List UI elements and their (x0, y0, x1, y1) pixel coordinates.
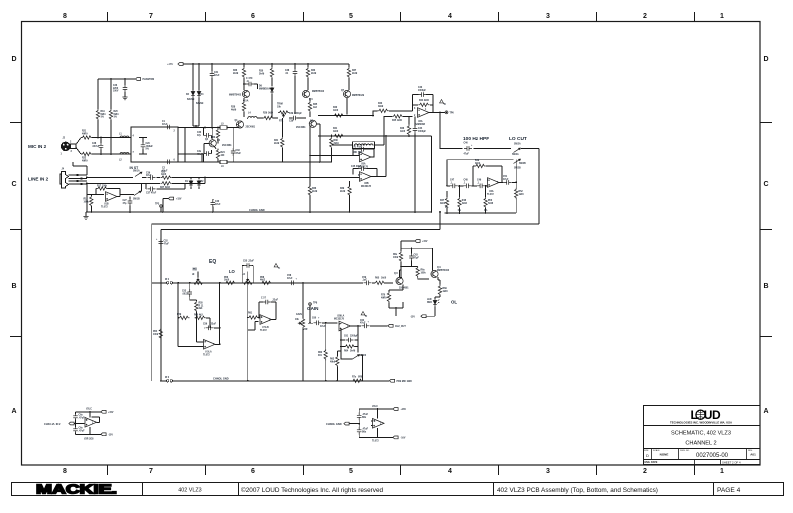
svg-text:+48V: +48V (167, 62, 173, 66)
resistor R30 (270, 67, 273, 78)
svg-text:R39: R39 (340, 188, 345, 190)
resistor R40 (333, 114, 344, 117)
svg-text:B6x: B6x (362, 417, 367, 419)
svg-text:V2LC: V2LC (86, 409, 92, 411)
svg-text:MMBT5403: MMBT5403 (229, 94, 242, 97)
wire phantom top (98, 78, 135, 80)
svg-text:C58: C58 (287, 275, 292, 277)
wire +48V rail (183, 63, 349, 65)
wire HI branch right (219, 283, 221, 345)
top zone ticks (108, 12, 695, 21)
net flag delta EQ (274, 264, 279, 269)
wire diode drop 2 (193, 64, 199, 128)
neg supply flag ol (421, 315, 426, 318)
svg-text:1k00: 1k00 (224, 280, 230, 282)
svg-text:R22: R22 (82, 158, 87, 160)
svg-text:C6x: C6x (79, 415, 84, 417)
wire shunt verticals to gnd bus (415, 136, 431, 212)
svg-text:2: 2 (643, 13, 647, 20)
svg-text:6k81: 6k81 (114, 114, 120, 116)
node gnd bus junctions (90, 211, 350, 213)
LED arrows (438, 300, 440, 304)
svg-text:V2R: V2R (303, 329, 308, 331)
svg-text:W 2: W 2 (165, 279, 170, 281)
svg-text:47uF: 47uF (320, 325, 326, 328)
svg-text:R20: R20 (114, 111, 119, 113)
svg-text:47uF: 47uF (162, 123, 168, 126)
capacitor C66 top (357, 412, 362, 420)
svg-text:+15V: +15V (108, 412, 114, 414)
svg-text:©2007 LOUD Technologies Inc. A: ©2007 LOUD Technologies Inc. All rights … (241, 486, 384, 494)
resistor R65 ol (374, 281, 385, 284)
svg-text:R70: R70 (381, 295, 386, 297)
svg-text:4k02: 4k02 (260, 279, 266, 282)
resistor R69 emitter (438, 285, 441, 296)
svg-text:.47uF: .47uF (79, 416, 86, 419)
resistor R17 feedback (97, 187, 108, 190)
left zone letters (11, 56, 16, 415)
wire OL supply (401, 241, 433, 248)
op-amp U5B lo (260, 315, 272, 325)
svg-text:47uF: 47uF (360, 322, 366, 325)
wire secondary return (161, 230, 440, 235)
svg-text:SW2B: SW2B (514, 168, 521, 170)
svg-text:SIZE: SIZE (644, 450, 649, 452)
wire hi opamp (178, 318, 220, 347)
capacitor C29 inside box (139, 138, 147, 155)
wire long mid rail (177, 161, 332, 163)
wire hpf feedback (473, 166, 502, 186)
svg-text:TL072: TL072 (372, 441, 379, 443)
wire tail resistor left (281, 118, 283, 162)
resistor R54 bus (160, 322, 162, 345)
wire bias flag (163, 199, 169, 213)
resistor R21 (81, 136, 92, 139)
capacitor C57 lo feedback (263, 300, 271, 305)
capacitor C49 (477, 184, 485, 189)
resistor R36 (308, 185, 311, 196)
wire line amp input (87, 184, 104, 195)
svg-text:V2R 2G8: V2R 2G8 (84, 439, 94, 441)
svg-text:R55: R55 (199, 303, 204, 305)
svg-text:R6x: R6x (393, 254, 398, 256)
svg-text:R36: R36 (312, 188, 317, 190)
wire hpf output (499, 160, 516, 183)
svg-text:C28: C28 (92, 143, 97, 145)
svg-text:C39: C39 (289, 121, 294, 123)
capacitor C35 (246, 82, 254, 87)
svg-text:1k00: 1k00 (333, 110, 339, 112)
svg-text:C49: C49 (477, 179, 482, 182)
wire phantom right (110, 79, 112, 154)
wire servo1 feedback (353, 149, 374, 157)
svg-text:D: D (11, 56, 16, 63)
wire ref input (74, 423, 84, 425)
op-amp U5A hi (204, 340, 216, 350)
capacitor C67 bottom (357, 427, 362, 435)
transistor Q7 (343, 90, 350, 97)
op-amp U1A ref (85, 418, 97, 428)
svg-text:R40: R40 (333, 106, 338, 109)
capacitor C51 out (504, 180, 512, 185)
svg-text:R 11: R 11 (199, 305, 204, 307)
capacitor C27 (129, 197, 131, 213)
wire LO branch (247, 283, 249, 381)
svg-text:R50: R50 (488, 200, 493, 202)
svg-text:CH2_OUT: CH2_OUT (395, 326, 406, 328)
chnol gnd flag (344, 422, 349, 425)
svg-text:MMBT6429: MMBT6429 (352, 94, 365, 97)
svg-text:TRIM: TRIM (277, 104, 283, 106)
svg-text:HI: HI (193, 267, 197, 272)
wire left bus outer (151, 230, 153, 381)
svg-text:HI: HI (192, 274, 195, 276)
top zone numbers (63, 13, 724, 20)
svg-text:47uF: 47uF (215, 203, 221, 206)
LOUD logo (691, 408, 721, 422)
resistor R33 (306, 67, 309, 78)
wire line tip (69, 174, 87, 176)
svg-text:R31: R31 (274, 140, 279, 142)
svg-text:R47: R47 (440, 199, 445, 202)
capacitor C30 base (204, 128, 212, 139)
wire HI branch left (177, 283, 179, 347)
wire jog to summing amp (373, 111, 413, 116)
svg-text:R43: R43 (378, 102, 383, 105)
capacitor C64 ref top (73, 413, 78, 421)
svg-text:47p: 47p (123, 202, 128, 205)
svg-text:LED: LED (427, 299, 432, 301)
svg-text:R23: R23 (211, 137, 216, 139)
wire inst row 1 (142, 177, 205, 179)
svg-text:MMBD914: MMBD914 (259, 87, 271, 90)
resistor R20 phantom (109, 109, 112, 120)
resistor R39 servo (348, 185, 351, 196)
svg-text:2SC4081: 2SC4081 (246, 126, 256, 129)
GAIN pot wire (302, 283, 304, 381)
wire HPF input cap (474, 147, 512, 149)
capacitor C62 out (362, 324, 370, 329)
svg-text:SW1A: SW1A (133, 170, 140, 173)
resistor R22 (81, 152, 92, 155)
transistor Q9 ol (431, 270, 438, 277)
resistor R66 bottom (352, 379, 363, 382)
input flag chn lvl (69, 422, 74, 425)
capacitor C26 phantom (124, 79, 126, 97)
svg-text:5: 5 (349, 468, 353, 475)
svg-text:1%: 1% (101, 117, 104, 119)
svg-text:CHNOL GND: CHNOL GND (213, 377, 229, 381)
bias flag (168, 197, 173, 200)
transistor Q8 ol driver (396, 277, 403, 284)
svg-text:.47uF: .47uF (79, 429, 86, 432)
node splitter junctions (358, 408, 378, 438)
wire Q8 emitter (389, 285, 403, 309)
svg-text:47p: 47p (197, 134, 202, 137)
wire gain wiper (308, 322, 337, 324)
node phantom junctions (110, 78, 126, 80)
node ref junctions (89, 411, 91, 435)
svg-text:RT1: RT1 (279, 121, 284, 123)
svg-text:SW2A: SW2A (512, 153, 519, 156)
wire Q8 collector tie (400, 270, 402, 277)
node q8 junction (395, 307, 397, 309)
svg-text:C: C (763, 181, 768, 188)
wire Q4 collector (212, 128, 214, 140)
svg-text:+15V: +15V (422, 241, 428, 243)
svg-text:PAGE 4: PAGE 4 (717, 487, 741, 494)
wire Q2 base tie (316, 124, 319, 136)
resistor R48 shunt2 (459, 186, 461, 213)
svg-text:C38: C38 (285, 70, 290, 72)
svg-text:.1uF: .1uF (362, 280, 367, 282)
trimpot TRIM (278, 111, 289, 118)
svg-text:6k81: 6k81 (101, 114, 107, 116)
servo amp U3B (360, 172, 372, 182)
svg-text:IN ST: IN ST (130, 166, 140, 170)
node servo2 junction (385, 135, 387, 137)
svg-text:2SC4081: 2SC4081 (222, 144, 232, 147)
svg-text:C 57: C 57 (261, 298, 267, 300)
wire emitter row (247, 117, 306, 120)
capacitor C40 gnd (212, 199, 214, 212)
svg-text:D: D (763, 56, 768, 63)
svg-text:GAIN: GAIN (307, 306, 319, 311)
inductor L4 (248, 117, 257, 119)
svg-text:7: 7 (149, 468, 153, 475)
wire main to OL (298, 282, 393, 284)
svg-text:100k: 100k (84, 201, 90, 203)
svg-text:C44: C44 (418, 127, 423, 130)
wire hpf bottom (445, 212, 517, 214)
wire ref rails (76, 412, 102, 435)
SCHEMATIC-UPPER (44, 230, 457, 443)
svg-text:C53: C53 (182, 291, 187, 293)
wire feedback loop (413, 95, 434, 113)
node servo1 in (309, 155, 311, 157)
svg-text:C48: C48 (464, 179, 469, 182)
capacitor C53 hi (189, 283, 191, 300)
diode D1 clamp (190, 178, 192, 189)
phantom flag (135, 78, 140, 81)
diode D3 (191, 90, 195, 98)
svg-text:6: 6 (251, 13, 255, 20)
op-amp U7 splitter (373, 419, 385, 429)
svg-text:R45 1k00: R45 1k00 (392, 119, 403, 122)
wire servo2 input (205, 176, 360, 178)
svg-text:49R9: 49R9 (82, 159, 88, 162)
svg-text:A: A (763, 408, 768, 415)
wire corner feed (319, 136, 321, 162)
resistor R37 (347, 67, 350, 78)
svg-text:SW1B: SW1B (133, 199, 140, 201)
test point TP8 (309, 306, 311, 323)
svg-text:TP6: TP6 (450, 113, 455, 115)
svg-text:4k99: 4k99 (231, 108, 237, 111)
svg-text:C3x: C3x (197, 151, 202, 153)
svg-text:C47: C47 (450, 179, 455, 182)
svg-text:2k49: 2k49 (352, 72, 358, 75)
svg-text:4: 4 (448, 468, 452, 475)
net flag delta gain (361, 312, 366, 317)
svg-text:R41: R41 (333, 127, 338, 130)
resistor R23 (217, 128, 219, 144)
svg-text:C27: C27 (123, 200, 128, 202)
svg-text:402 VLZ3 PCB Assembly (Top, Bo: 402 VLZ3 PCB Assembly (Top, Bottom, and … (497, 487, 658, 494)
wire line to inst row (73, 162, 147, 183)
svg-text:2k49: 2k49 (340, 190, 346, 193)
wire line amp feedback (96, 189, 120, 197)
svg-text:2k49: 2k49 (350, 350, 356, 353)
resistor R55 hi (190, 300, 197, 318)
wire Q9 collector (432, 248, 434, 270)
svg-text:R21: R21 (82, 131, 87, 133)
resistor R45 (392, 115, 403, 118)
svg-text:0R0: 0R0 (358, 376, 363, 378)
svg-text:C52: C52 (164, 241, 169, 243)
svg-text:-15V: -15V (108, 435, 113, 437)
resistor R44 feedback (418, 103, 429, 106)
svg-text:47uF: 47uF (287, 277, 293, 280)
svg-text:SW2A: SW2A (514, 143, 521, 146)
svg-text:ENG. DATE: ENG. DATE (645, 461, 658, 464)
wire summing output (429, 111, 445, 113)
jumper pads main (166, 282, 168, 284)
left zone ticks (10, 123, 21, 337)
footer box (12, 483, 784, 496)
wire servo1 input (310, 154, 360, 156)
svg-text:BAV99: BAV99 (187, 98, 195, 101)
svg-text:U1B: U1B (104, 204, 109, 206)
svg-text:49k9: 49k9 (330, 360, 336, 363)
svg-text:C36: C36 (146, 172, 151, 174)
svg-text:4k02: 4k02 (440, 202, 446, 205)
svg-text:R49: R49 (475, 159, 480, 162)
resistor R67 collector load (400, 248, 402, 277)
resistor R24 (217, 149, 219, 162)
svg-text:TECHNOLOGIES INC. WOODINVILLE: TECHNOLOGIES INC. WOODINVILLE WA. USA (670, 421, 732, 425)
wire hi mid row (178, 318, 210, 328)
supply flag ref neg (101, 433, 106, 436)
svg-text:47uF: 47uF (214, 74, 220, 77)
capacitor C32 top edge (165, 125, 173, 130)
resistor R18 (90, 195, 92, 213)
svg-text:U26LA: U26LA (337, 315, 345, 318)
right zone ticks (760, 123, 772, 337)
pot GAIN (298, 317, 305, 328)
svg-text:C63: C63 (414, 255, 419, 257)
svg-text:R62: R62 (318, 352, 323, 354)
resistor R49 feedback (474, 164, 485, 167)
svg-text:49R9: 49R9 (381, 296, 387, 299)
wire third branch (347, 64, 349, 115)
svg-text:MACKIE.: MACKIE. (36, 482, 117, 496)
svg-text:.047uF: .047uF (92, 145, 100, 148)
ferrite bead L6 (220, 160, 227, 164)
capacitor C34 bottom edge (165, 160, 173, 165)
wire output down to HPF (440, 112, 463, 148)
svg-text:A: A (11, 408, 16, 415)
node fb junction (357, 325, 359, 327)
svg-text:C 47C: C 47C (246, 77, 253, 80)
svg-text:1: 1 (720, 468, 724, 475)
svg-text:100k: 100k (393, 257, 399, 259)
wire ref left rail (75, 412, 77, 435)
node line jack squares (77, 174, 83, 185)
svg-text:U 5LB: U 5LB (262, 327, 269, 329)
svg-text:MMBT5403: MMBT5403 (312, 90, 325, 93)
svg-text:100k: 100k (421, 272, 427, 274)
svg-text:B: B (11, 283, 16, 290)
svg-text:B6x: B6x (362, 431, 367, 433)
wire Q4 emitter (215, 147, 217, 150)
svg-text:1k00: 1k00 (161, 174, 167, 176)
+48V supply flag (178, 63, 183, 66)
wire q8 down (395, 308, 397, 316)
svg-text:C37 47uF: C37 47uF (146, 192, 157, 195)
net flag delta A (440, 100, 445, 105)
capacitor C39 (291, 116, 299, 121)
svg-text:2SC4081: 2SC4081 (296, 126, 306, 129)
svg-text:C33: C33 (236, 150, 241, 152)
svg-text:U 5LA: U 5LA (205, 351, 212, 354)
resistor R47 shunt1 (446, 191, 448, 213)
svg-text:7: 7 (149, 13, 153, 20)
right zone letters (763, 56, 768, 415)
svg-text:.47uF: .47uF (362, 413, 369, 416)
svg-text:C56: C56 (203, 324, 208, 326)
svg-text:C30: C30 (197, 132, 202, 134)
svg-text:.068uF: .068uF (146, 146, 154, 148)
wire lo input row (248, 317, 259, 319)
svg-text:1%: 1% (458, 210, 461, 212)
svg-text:1k00: 1k00 (443, 291, 449, 293)
svg-text:C43: C43 (418, 86, 423, 89)
svg-text:CHNOL GND: CHNOL GND (326, 422, 342, 426)
svg-text:.22uF: .22uF (210, 324, 217, 326)
resistor R43 (378, 109, 389, 112)
svg-text:.47uF: .47uF (362, 428, 369, 431)
svg-text:R33: R33 (311, 70, 316, 72)
svg-text:RED: RED (427, 302, 432, 304)
svg-text:TL072: TL072 (101, 206, 108, 208)
capacitor C36 (148, 175, 156, 180)
svg-text:TP8: TP8 (313, 303, 318, 305)
node corner (319, 161, 321, 163)
wire cap drop (211, 64, 213, 128)
switch SW3 gain (353, 355, 360, 359)
svg-text:1%: 1% (445, 207, 448, 209)
svg-text:R69: R69 (443, 288, 448, 290)
supply flag ref pos (101, 410, 106, 413)
svg-text:C6x: C6x (79, 428, 84, 430)
svg-text:C39 1000pF: C39 1000pF (289, 113, 302, 115)
wire left bus inner (160, 234, 162, 381)
supply flag split pos (393, 408, 398, 411)
capacitor C28 across (100, 138, 102, 155)
capacitor C31 (210, 71, 215, 79)
svg-text:47u: 47u (197, 153, 202, 156)
transistor Q6 (302, 90, 309, 97)
capacitor C45 servo feedback (359, 166, 367, 171)
svg-text:TP3: TP3 (155, 204, 160, 206)
resistor R41 (333, 134, 344, 137)
svg-text:SW2B: SW2B (519, 163, 526, 165)
svg-text:1k00: 1k00 (333, 131, 339, 133)
wire Q9 emitter (435, 277, 440, 299)
svg-text:1000pF: 1000pF (418, 90, 427, 92)
svg-text:C51: C51 (503, 176, 508, 178)
